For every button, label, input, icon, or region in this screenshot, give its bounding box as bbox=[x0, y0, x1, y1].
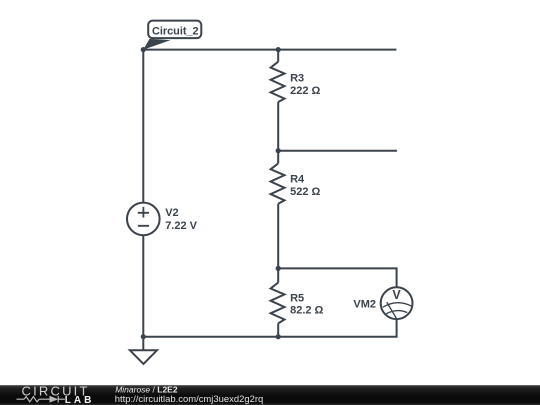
svg-text:R3: R3 bbox=[290, 73, 304, 85]
svg-text:VM2: VM2 bbox=[353, 299, 376, 311]
svg-text:Minarose / L2E2: Minarose / L2E2 bbox=[115, 384, 178, 394]
svg-text:LAB: LAB bbox=[65, 395, 95, 405]
svg-text:522 Ω: 522 Ω bbox=[290, 186, 320, 198]
svg-text:http://circuitlab.com/cmj3uexd: http://circuitlab.com/cmj3uexd2g2rq bbox=[115, 394, 263, 405]
svg-text:222 Ω: 222 Ω bbox=[290, 85, 320, 97]
svg-text:R5: R5 bbox=[290, 292, 304, 304]
svg-text:R4: R4 bbox=[290, 174, 305, 186]
svg-text:V: V bbox=[392, 288, 401, 302]
svg-text:V2: V2 bbox=[165, 207, 178, 219]
svg-text:7.22 V: 7.22 V bbox=[165, 220, 197, 232]
svg-text:82.2 Ω: 82.2 Ω bbox=[290, 305, 323, 317]
svg-text:Circuit_2: Circuit_2 bbox=[152, 26, 199, 38]
